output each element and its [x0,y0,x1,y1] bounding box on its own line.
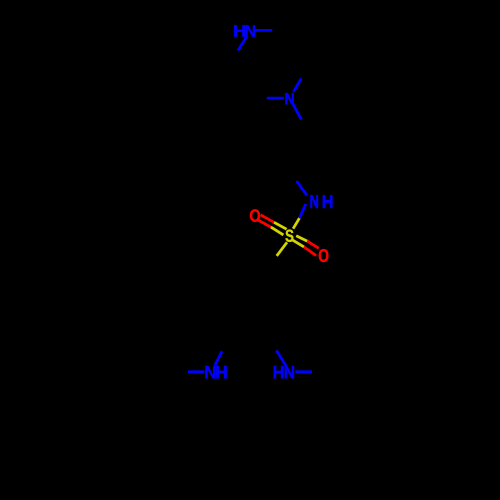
wire aryl-HN bond right horizontal (blue half) [295,370,312,373]
wire HN-C(aryl) bond (blue half) [276,350,286,365]
S=O2 double bond lower line (red half) [304,247,316,256]
piperazine N1-H label: N [245,25,254,36]
aniline HN label (bottom right): H [274,366,284,379]
oxygen O2 label (lower right) [319,249,329,262]
piperazine N1-H label: H [234,25,245,36]
wire aryl-NH bond left horizontal (blue half) [188,370,204,373]
piperazine N4 label: N [285,93,293,104]
oxygen O1 label (upper left) [250,209,260,221]
wire N1-C2 bond (blue half) [255,29,272,32]
S=O1 double bond lower line (red half) [258,220,271,227]
wire CH2-NH bond (blue half) [297,181,308,196]
wire NH-C(aryl) bond (blue half) [215,351,222,365]
S=O2 double bond upper line (yellow half) [296,236,307,241]
wire N4-C5 bond (blue half) [267,97,284,100]
aniline NH label (bottom left): N [205,366,215,379]
wire NH-S bond (yellow half) [293,218,299,229]
S=O1 double bond lower line (yellow half) [271,227,284,235]
sulfonamide NH label: H [323,195,333,208]
S=O2 double bond lower line (yellow half) [293,240,304,247]
S=O2 double bond upper line (red half) [307,241,319,248]
wire S-C(aryl) bond (yellow half) [277,242,287,256]
aniline NH label (bottom left): H [216,366,226,379]
wire N4-C3 bond (blue half) [294,79,302,92]
sulfonamide NH label: N [310,195,318,208]
wire NH-S bond (blue half) [299,204,305,218]
aniline HN label (bottom right): N [285,366,294,379]
wire N1-C6 bond (blue half) [238,36,247,51]
S=O1 double bond upper line (red half) [261,215,274,222]
sulfur S label [285,230,293,242]
S=O1 double bond upper line (yellow half) [274,222,287,229]
wire N4-CH2 chain bond (blue half) [293,104,301,120]
